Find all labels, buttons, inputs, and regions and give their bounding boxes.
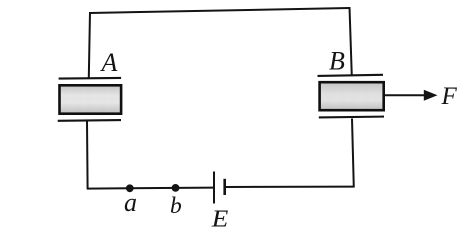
wire right upper bbox=[350, 7, 352, 76]
force arrow F bbox=[385, 90, 438, 101]
capacitor A slab bbox=[60, 85, 122, 113]
svg-text:A: A bbox=[100, 48, 118, 77]
wire top bbox=[90, 8, 350, 13]
capacitor B bottom plate bbox=[319, 116, 384, 119]
battery E long plate bbox=[213, 172, 215, 204]
svg-text:B: B bbox=[329, 47, 345, 76]
node b bbox=[172, 184, 180, 192]
svg-text:E: E bbox=[211, 205, 229, 232]
svg-text:F: F bbox=[441, 83, 458, 110]
capacitor B slab bbox=[320, 82, 384, 110]
svg-text:b: b bbox=[170, 193, 182, 219]
capacitor A bottom plate bbox=[58, 119, 121, 122]
capacitor A top plate bbox=[59, 77, 122, 80]
wire bottom left bbox=[87, 188, 214, 189]
wire right lower bbox=[352, 119, 354, 188]
node a bbox=[126, 184, 134, 192]
capacitor B top plate bbox=[318, 75, 384, 76]
wire bottom right bbox=[226, 186, 354, 188]
svg-text:a: a bbox=[124, 188, 137, 217]
wire left lower bbox=[86, 122, 89, 190]
wire left upper bbox=[89, 12, 90, 78]
battery E short plate bbox=[223, 179, 226, 195]
